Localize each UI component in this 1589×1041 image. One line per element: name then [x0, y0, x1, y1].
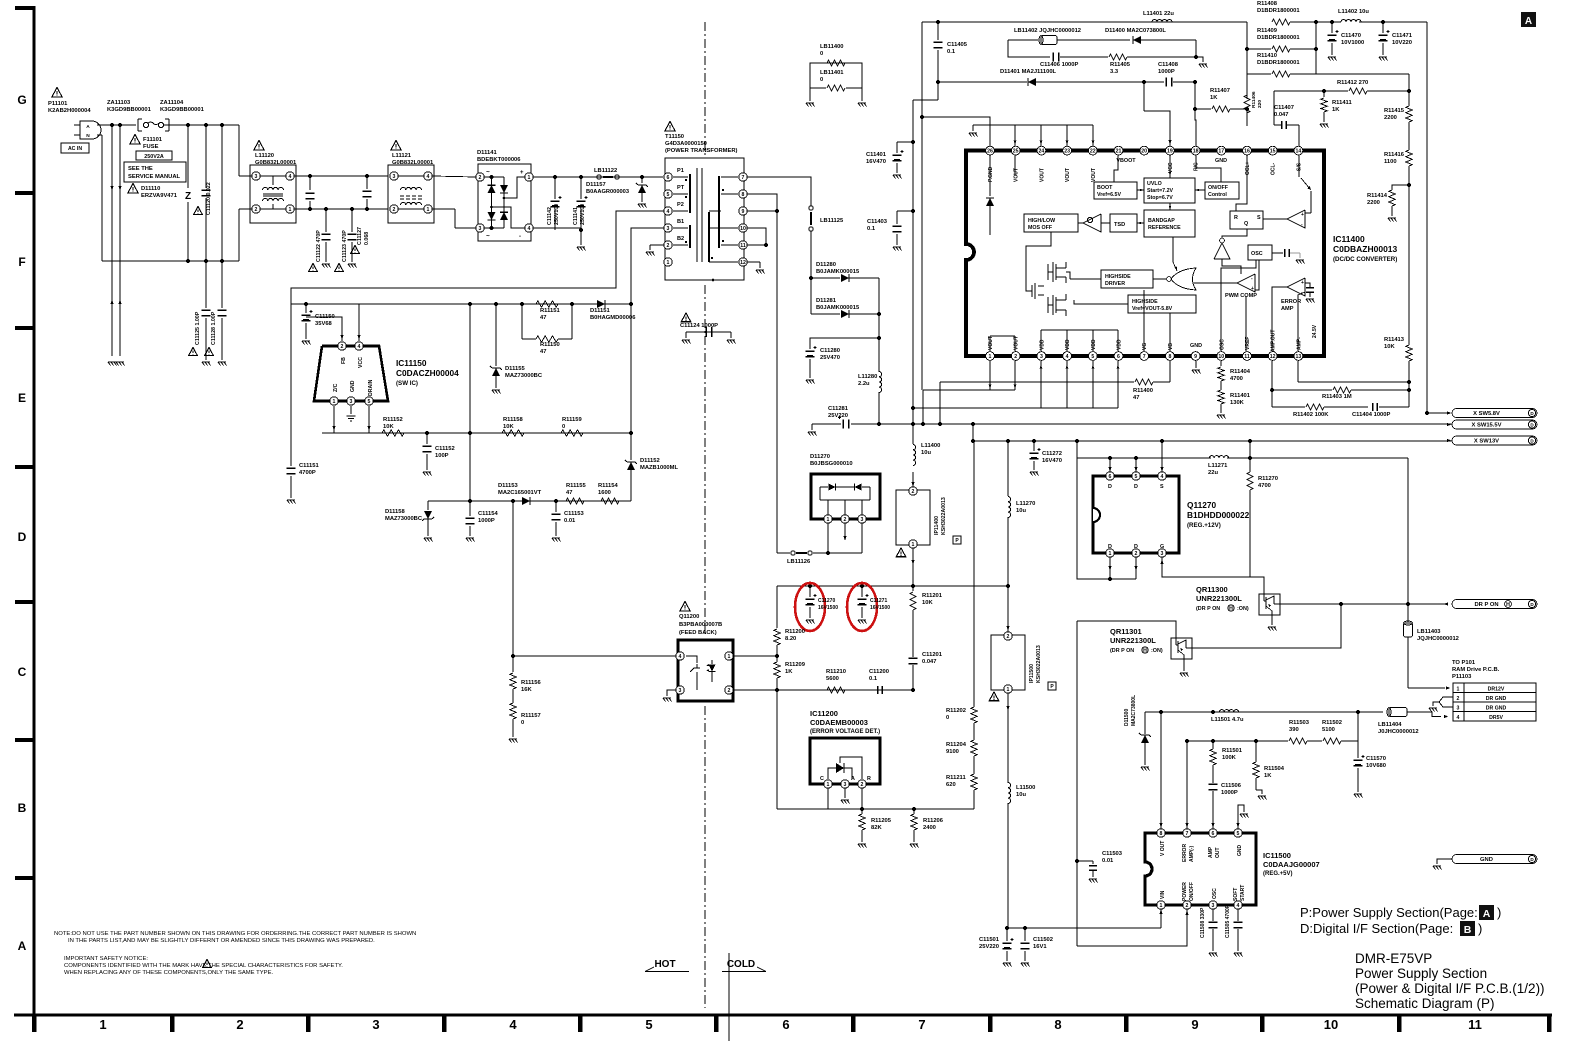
svg-text:2400: 2400 [923, 825, 936, 831]
wire vout pins rail above [973, 124, 1093, 126]
wire vout rail to pin8 [1160, 712, 1162, 834]
svg-text:82K: 82K [871, 825, 882, 831]
wire to choke L11120 [238, 125, 240, 176]
svg-text:5600: 5600 [826, 676, 839, 682]
svg-text:HIGHSIDE: HIGHSIDE [1132, 299, 1158, 305]
internal wire pin18 to ONOFF [1196, 155, 1221, 182]
svg-text:P1: P1 [677, 168, 684, 174]
ON/OFF Control block [1205, 182, 1239, 199]
wire QR11301 collector right [1186, 647, 1193, 649]
svg-text:A: A [1525, 16, 1532, 27]
svg-text:VCC: VCC [1168, 162, 1174, 173]
svg-text:RAM Drive P.C.B.: RAM Drive P.C.B. [1452, 667, 1500, 673]
svg-text:P:Power Supply Section(Page:: P:Power Supply Section(Page: [1300, 905, 1478, 920]
svg-text:11: 11 [740, 243, 746, 249]
svg-text:1: 1 [667, 260, 670, 266]
TSD block [1110, 214, 1137, 232]
internal wire pwm comp to nor [1194, 282, 1237, 284]
svg-text:C11128 1.00P: C11128 1.00P [211, 311, 217, 345]
svg-text:DR5V: DR5V [1489, 715, 1503, 721]
svg-text:DRIVER: DRIVER [1105, 281, 1125, 287]
svg-text:4: 4 [509, 1017, 517, 1032]
internal wire buffer-HIGHLOW [1078, 222, 1083, 224]
svg-text:B0JAMK000015: B0JAMK000015 [816, 305, 860, 311]
internal wire TSD-buffer [1101, 222, 1110, 224]
svg-text:D: D [1108, 544, 1112, 550]
svg-text:390: 390 [1289, 727, 1299, 733]
svg-text:B3PBA000007B: B3PBA000007B [679, 622, 722, 628]
svg-text:1000P: 1000P [478, 518, 495, 524]
ferrite bead LB11125 [809, 206, 813, 210]
svg-text:1000P: 1000P [1158, 69, 1175, 75]
svg-text:(POWER TRANSFORMER): (POWER TRANSFORMER) [665, 148, 738, 154]
internal wire nor to driver [1153, 278, 1166, 280]
internal wire BANDGAP-TSD [1137, 222, 1144, 224]
svg-text:C0DBAZH00013: C0DBAZH00013 [1333, 244, 1398, 254]
capacitor C11471 10V220 [1382, 22, 1384, 33]
svg-text:C11122 470P: C11122 470P [316, 230, 322, 262]
svg-text:(DR P ON: (DR P ON [1196, 606, 1220, 612]
svg-text:R11402 100K: R11402 100K [1293, 412, 1329, 418]
svg-text:R11412 270: R11412 270 [1337, 80, 1368, 86]
svg-text:C11200: C11200 [869, 669, 889, 675]
svg-text:22u: 22u [1208, 470, 1218, 476]
wire input loop [97, 134, 102, 136]
inductor L11271 22u [1209, 456, 1228, 458]
svg-text:E: E [18, 391, 26, 405]
svg-text:QR11301: QR11301 [1110, 627, 1142, 636]
ground pin3 GND [350, 406, 352, 414]
svg-text:P2: P2 [677, 202, 684, 208]
svg-text:4: 4 [289, 174, 292, 180]
svg-text:VDD: VDD [1117, 339, 1123, 350]
svg-text:): ) [1478, 921, 1482, 936]
MOSFET low side [1052, 295, 1054, 315]
internal wire bandgap to nor [1173, 237, 1177, 271]
svg-text:1000P: 1000P [1221, 790, 1238, 796]
svg-text:R11209: R11209 [785, 662, 806, 668]
svg-text:1: 1 [528, 175, 531, 181]
svg-text:0: 0 [521, 720, 524, 726]
svg-text:VDD: VDD [1065, 339, 1071, 350]
svg-text:Q11200: Q11200 [679, 614, 699, 620]
ground IC11200 pin3 [844, 788, 846, 798]
svg-text:13: 13 [1296, 354, 1302, 360]
svg-text:AC IN: AC IN [68, 146, 82, 152]
svg-text:UNR221300L: UNR221300L [1196, 594, 1242, 603]
svg-text:DMR-E75VP: DMR-E75VP [1355, 951, 1432, 966]
svg-text:C11124 1000P: C11124 1000P [680, 323, 718, 329]
svg-text:22: 22 [1090, 149, 1096, 155]
svg-text:7: 7 [1186, 831, 1189, 837]
svg-text:2: 2 [844, 517, 847, 523]
wire arrow into DR12V [1408, 687, 1445, 689]
wire Q11270 G pin to QR11300 [1162, 557, 1264, 593]
svg-text:2200: 2200 [1384, 115, 1397, 121]
svg-text:OSC: OSC [1251, 251, 1263, 257]
capacitor C11125 1.00P [205, 261, 207, 308]
svg-text:(Power & Digital I/F P.C.B.(1/: (Power & Digital I/F P.C.B.(1/2)) [1355, 981, 1545, 996]
svg-text:C: C [18, 665, 27, 679]
internal wire pins VDD rail [1041, 329, 1118, 331]
svg-text:C11407: C11407 [1274, 105, 1294, 111]
wire bridge- rail [533, 227, 581, 229]
wire to Q11270 pins [1109, 458, 1111, 472]
S/S comparator triangle [1287, 210, 1305, 228]
svg-text:C11123 470P: C11123 470P [342, 230, 348, 262]
switch S/S pin14 [1298, 125, 1300, 177]
svg-text:16: 16 [1244, 149, 1250, 155]
svg-text:1: 1 [827, 782, 830, 788]
svg-text:R11413: R11413 [1384, 337, 1405, 343]
svg-text:C11506: C11506 [1221, 783, 1242, 789]
svg-text:DR P ON: DR P ON [1474, 602, 1498, 608]
svg-text:V OUT: V OUT [1160, 841, 1166, 856]
svg-text:D1BDR1800001: D1BDR1800001 [1257, 60, 1300, 66]
svg-text:1: 1 [289, 207, 292, 213]
svg-text:OSC: OSC [1212, 888, 1218, 899]
capacitor C11128 1.00P [221, 261, 223, 308]
svg-text:DR GND: DR GND [1486, 696, 1507, 702]
svg-text:6: 6 [782, 1017, 789, 1032]
transformer secondary pins [739, 173, 747, 181]
capacitor C11142 250V100 [554, 177, 556, 199]
svg-text:VDD: VDD [1039, 339, 1045, 350]
svg-text:Vref=6.5V: Vref=6.5V [1097, 192, 1121, 198]
svg-text:3: 3 [255, 174, 258, 180]
svg-text:JQJHC0000012: JQJHC0000012 [1417, 636, 1459, 642]
svg-text:C11503: C11503 [1102, 851, 1123, 857]
svg-text:6: 6 [667, 175, 670, 181]
svg-text:Q11270: Q11270 [1187, 500, 1216, 510]
svg-text:FUSE: FUSE [143, 144, 159, 150]
svg-text:R11157: R11157 [521, 713, 541, 719]
svg-text:B0JBSG000010: B0JBSG000010 [810, 461, 853, 467]
svg-text:IC11500: IC11500 [1263, 851, 1291, 860]
capacitor C11153 0.01 [555, 501, 557, 512]
svg-text:GND: GND [1190, 343, 1202, 349]
svg-text:R/C: R/C [1194, 162, 1200, 171]
svg-text:COLD: COLD [727, 959, 755, 970]
svg-text:B1DHDD000022: B1DHDD000022 [1187, 510, 1250, 520]
svg-text:D: D [18, 530, 27, 544]
svg-text:2: 2 [667, 243, 670, 249]
wire bridge+ to transformer [533, 176, 663, 178]
svg-text:C11125 1.00P: C11125 1.00P [195, 311, 201, 345]
svg-text:KSH3022A0013: KSH3022A0013 [941, 497, 947, 535]
HIGH/LOW MOS OFF block [1024, 214, 1078, 232]
svg-text:5: 5 [1091, 354, 1094, 360]
svg-text:4: 4 [667, 209, 670, 215]
svg-text:3: 3 [1161, 551, 1164, 557]
svg-text:2: 2 [728, 688, 731, 694]
capacitor C11152 100P [426, 433, 428, 444]
svg-text:47: 47 [540, 349, 546, 355]
internal wire pin16 to R [1236, 155, 1247, 211]
svg-text:R11414: R11414 [1367, 193, 1388, 199]
connector P11101 AC inlet [52, 88, 62, 98]
svg-text:J0JHC0000012: J0JHC0000012 [1378, 729, 1419, 735]
svg-text:D11153: D11153 [498, 483, 518, 489]
svg-text:D11400 MA2C073800L: D11400 MA2C073800L [1105, 28, 1166, 34]
svg-text:R11158: R11158 [503, 417, 523, 423]
svg-text:1: 1 [1457, 687, 1460, 693]
svg-text:D11151: D11151 [590, 308, 610, 314]
internal wire ONOFF-UVLO [1195, 189, 1205, 191]
svg-text:R11503: R11503 [1289, 720, 1310, 726]
wire pin1 left jog [321, 410, 323, 433]
svg-text:H: H [1506, 602, 1510, 608]
svg-text:H: H [1229, 606, 1233, 612]
svg-text:3: 3 [1212, 903, 1215, 909]
svg-text:2: 2 [1186, 903, 1189, 909]
capacitor C11151 4700P [290, 304, 292, 466]
svg-text:D11141: D11141 [477, 150, 497, 156]
svg-text:HIGH/LOW: HIGH/LOW [1028, 218, 1055, 224]
svg-text:100K: 100K [1222, 755, 1237, 761]
svg-text:PT: PT [677, 185, 685, 191]
svg-text:0.047: 0.047 [1274, 112, 1289, 118]
svg-text:1: 1 [99, 1017, 106, 1032]
svg-text:2: 2 [861, 782, 864, 788]
fuse rating box 250V2A [136, 151, 172, 160]
svg-text:OCL+: OCL+ [1245, 161, 1251, 175]
svg-text:K2AB2H000004: K2AB2H000004 [48, 108, 91, 114]
ground B2 pin [650, 244, 664, 246]
svg-text:VOUT: VOUT [1039, 168, 1045, 182]
svg-text:R11504: R11504 [1264, 766, 1285, 772]
svg-text:1K: 1K [1332, 107, 1340, 113]
svg-text:ERZVA9V471: ERZVA9V471 [141, 193, 178, 199]
svg-text:G: G [1160, 544, 1164, 550]
svg-text:VIN: VIN [1160, 890, 1166, 899]
wire pin9 [747, 210, 777, 212]
svg-text:3: 3 [393, 174, 396, 180]
wire QR11300 collector to DR P ON [1274, 603, 1281, 605]
svg-text:L11120: L11120 [255, 153, 274, 159]
svg-text:10K: 10K [503, 424, 514, 430]
svg-text:C11403: C11403 [867, 219, 888, 225]
capacitor C11154 1000P [466, 517, 475, 519]
connector GND [1437, 859, 1452, 864]
capacitor C11270 16V1500 [809, 586, 811, 597]
svg-text:11: 11 [1468, 1017, 1482, 1032]
inverter triangle [1214, 243, 1230, 259]
svg-text:R11411: R11411 [1332, 100, 1352, 106]
svg-text:KSH3022A0013: KSH3022A0013 [1036, 645, 1042, 683]
svg-text:(FEED BACK): (FEED BACK) [679, 630, 717, 636]
svg-text:3.3: 3.3 [1110, 69, 1119, 75]
svg-text:2: 2 [341, 344, 344, 350]
wire pin8 down feed [747, 194, 777, 551]
internal wire pin19 to UVLO [1169, 155, 1171, 178]
svg-text:R11410: R11410 [1257, 53, 1277, 59]
capacitor across line [309, 176, 311, 190]
svg-text:K3GD9BB00001: K3GD9BB00001 [107, 107, 152, 113]
svg-text:C11406 1000P: C11406 1000P [1040, 62, 1078, 68]
svg-text:R11210: R11210 [826, 669, 846, 675]
resistor R11270 4700 [1249, 441, 1251, 458]
svg-text:L11121: L11121 [392, 153, 412, 159]
wire QR11300 emitter ground [1271, 616, 1273, 625]
svg-text:3: 3 [667, 226, 670, 232]
svg-text:WHEN REPLACING ANY OF THESE C: WHEN REPLACING ANY OF THESE COMPONENTS,O… [64, 970, 274, 976]
svg-text:0.1: 0.1 [867, 226, 876, 232]
svg-text:(REG.+5V): (REG.+5V) [1263, 871, 1293, 877]
svg-text:1K: 1K [1264, 773, 1272, 779]
svg-text:2: 2 [912, 489, 915, 495]
wire pin7 error [1186, 741, 1188, 829]
svg-text:2200: 2200 [1367, 200, 1380, 206]
svg-text:+: + [1251, 286, 1254, 292]
svg-text:PWM COMP: PWM COMP [1225, 293, 1257, 299]
svg-text:TSD: TSD [1114, 222, 1125, 228]
svg-text:IC11400: IC11400 [1333, 234, 1365, 244]
svg-text:2.2u: 2.2u [858, 381, 870, 387]
capacitor C11123 470P [350, 207, 354, 211]
svg-text:Power Supply Section: Power Supply Section [1355, 966, 1487, 981]
RS flip-flop block [1230, 211, 1263, 229]
svg-text:(DR P ON: (DR P ON [1110, 648, 1134, 654]
svg-text:9: 9 [742, 209, 745, 215]
svg-text:250V2A: 250V2A [144, 154, 164, 160]
internal wire BOOT-UVLO [1137, 189, 1144, 191]
svg-text:A: A [86, 124, 90, 130]
svg-text:S/S: S/S [1296, 162, 1302, 171]
transformer windings [689, 174, 691, 213]
svg-text:R11501: R11501 [1222, 748, 1243, 754]
choke L11121 [391, 141, 401, 151]
svg-text:23: 23 [1064, 149, 1070, 155]
svg-text:LB11403: LB11403 [1417, 629, 1441, 635]
svg-text::ON): :ON) [1151, 648, 1163, 654]
svg-text:2: 2 [1135, 551, 1138, 557]
svg-text:GND: GND [1237, 845, 1243, 857]
svg-text:G4D3A0000150: G4D3A0000150 [665, 141, 707, 147]
svg-text:10V220: 10V220 [1392, 40, 1412, 46]
svg-text:MA2C165001VT: MA2C165001VT [498, 490, 542, 496]
svg-text:2: 2 [255, 207, 258, 213]
svg-text:QR11300: QR11300 [1196, 585, 1228, 594]
rail to X SW15.5V [879, 423, 1452, 425]
svg-text:0: 0 [820, 51, 823, 57]
svg-text:T11150: T11150 [665, 134, 684, 140]
svg-text:LB11125: LB11125 [820, 218, 844, 224]
svg-text:C11201: C11201 [922, 652, 943, 658]
wire choke1 to choke2 [294, 175, 388, 177]
svg-text:~: ~ [486, 169, 490, 176]
svg-text:X SW5.8V: X SW5.8V [1473, 411, 1500, 417]
connector table P11103 [1453, 683, 1536, 721]
svg-text:0.1: 0.1 [947, 49, 956, 55]
svg-text:4: 4 [1237, 903, 1240, 909]
capacitor C11127 0.068 [365, 174, 369, 178]
svg-text:ZA11104: ZA11104 [160, 100, 184, 106]
svg-text:0.068: 0.068 [364, 232, 370, 245]
wire fuse to filter [97, 124, 136, 126]
svg-text:D11158: D11158 [385, 509, 405, 515]
svg-text:0: 0 [946, 715, 949, 721]
capacitor C11122 470P [324, 207, 328, 211]
svg-text:1: 1 [1007, 687, 1010, 693]
svg-text:16V1500: 16V1500 [870, 605, 890, 611]
svg-text:BANDGAP: BANDGAP [1148, 218, 1175, 224]
svg-text:VB: VB [1168, 343, 1174, 350]
wire pin1 ZC [333, 406, 335, 433]
wire column x913 to rail [776, 690, 778, 809]
svg-text:10u: 10u [1016, 792, 1026, 798]
svg-text:100P: 100P [435, 453, 449, 459]
svg-text:LB11122: LB11122 [594, 168, 617, 174]
BOOT block [1094, 182, 1137, 199]
svg-text:1K: 1K [1210, 95, 1218, 101]
svg-text:3: 3 [1457, 706, 1460, 712]
svg-text:3: 3 [350, 399, 353, 405]
svg-text:X SW15.5V: X SW15.5V [1472, 423, 1502, 429]
svg-text:A: A [18, 939, 27, 953]
svg-text:~: ~ [486, 233, 490, 240]
internal wire HIGHLOW down to gate mosfet [1026, 232, 1051, 291]
fuse F11101 [143, 122, 148, 127]
svg-text:5: 5 [1135, 474, 1138, 480]
capacitor C11141 250V100 [580, 177, 582, 199]
optocoupler Q11200 (FEED BACK) [680, 602, 690, 612]
svg-text:IC11200: IC11200 [810, 709, 838, 718]
capacitor C11280 25V470 [810, 314, 812, 338]
svg-text:9100: 9100 [946, 749, 959, 755]
svg-text:0: 0 [820, 77, 823, 83]
svg-text:1: 1 [827, 517, 830, 523]
wire IC11200 pin2 [861, 788, 863, 809]
svg-text:FB: FB [341, 357, 347, 364]
IC11200 internal TL431 [828, 768, 836, 779]
svg-text:250V100: 250V100 [580, 204, 586, 225]
wire transformer frame bottom [665, 279, 744, 281]
svg-text:10K: 10K [383, 424, 394, 430]
svg-text:C11570: C11570 [1366, 756, 1386, 762]
wire FB pin2 [306, 317, 342, 341]
svg-text:C11272: C11272 [1042, 451, 1062, 457]
svg-text:START: START [1240, 885, 1246, 901]
choke L11120 [254, 141, 264, 151]
svg-text:R: R [1234, 215, 1238, 221]
svg-text:D: D [1134, 484, 1138, 490]
capacitor C11405 0.1 [937, 22, 939, 40]
HOT/COLD isolation boundary (dash-dot line) [704, 22, 706, 155]
svg-text:C11120 0.022: C11120 0.022 [206, 182, 212, 215]
svg-text:C11154: C11154 [478, 511, 498, 517]
svg-text:1: 1 [912, 542, 915, 548]
wire error row y501 [428, 500, 631, 502]
wire pin26 pgnd [922, 117, 990, 146]
wire QR11301 base from top [1077, 621, 1176, 637]
wire pin5 DRAIN [368, 406, 370, 433]
wire Q11200 pin4 left [513, 655, 676, 657]
internal wire UVLO-BANDGAP [1169, 203, 1171, 210]
svg-text:AMP: AMP [1281, 306, 1294, 312]
ground secondary pin12 [747, 261, 760, 263]
svg-text:B1: B1 [677, 219, 684, 225]
svg-text:4700: 4700 [1230, 376, 1243, 382]
wire top rail vcc [922, 21, 1247, 23]
svg-text:DR GND: DR GND [1486, 706, 1507, 712]
internal wire pin25 24-22 vout [1015, 155, 1048, 262]
svg-text:Q: Q [1244, 221, 1248, 227]
svg-text:1: 1 [989, 354, 992, 360]
svg-text:R11400: R11400 [1133, 388, 1153, 394]
wire pin7 to LB11125 [747, 177, 811, 206]
red circle mark on C11270 [795, 583, 825, 631]
